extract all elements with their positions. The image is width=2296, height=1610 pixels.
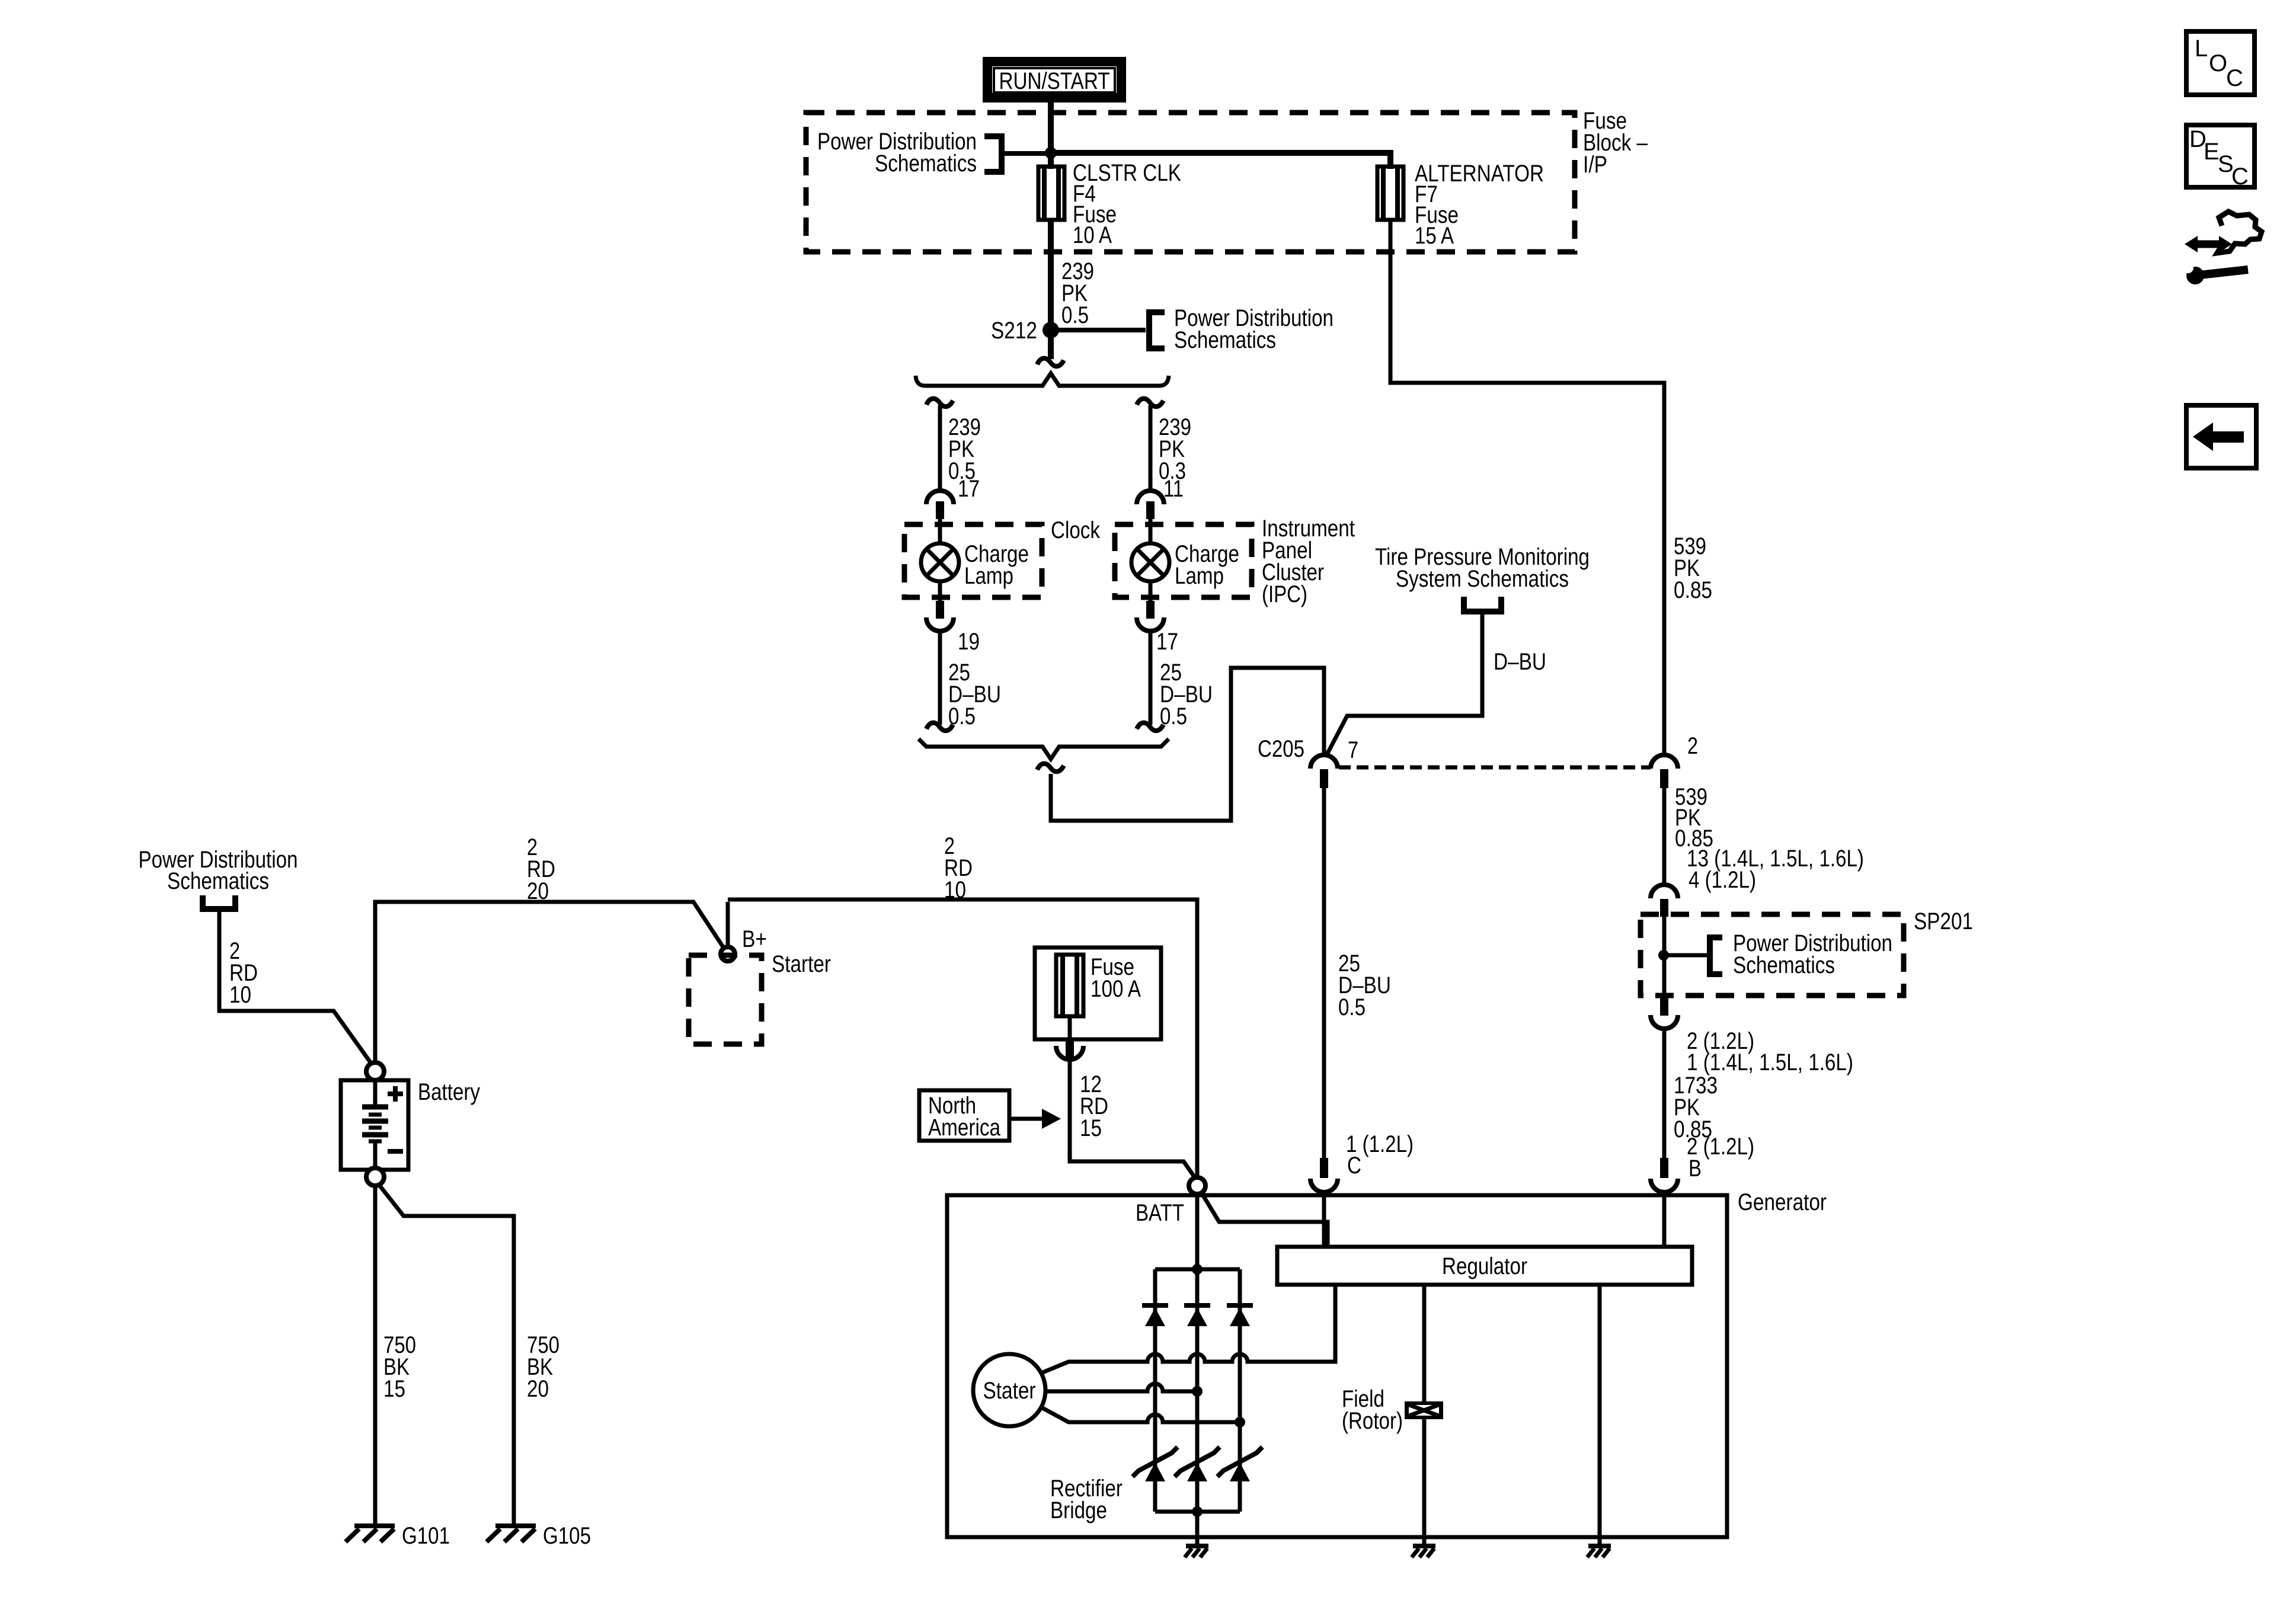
wire bracket to battery positive	[219, 912, 372, 1065]
label power distribution schematics (SP201)	[1733, 930, 1892, 978]
svg-text:1 (1.4L, 1.5L, 1.6L): 1 (1.4L, 1.5L, 1.6L)	[1687, 1049, 1853, 1076]
icon back arrow box	[2186, 405, 2256, 468]
connector C at generator	[1310, 1158, 1338, 1192]
svg-text:15: 15	[1080, 1115, 1102, 1141]
diode bottom avalanche 2	[1175, 1447, 1220, 1481]
out-of-page break right branch bottom	[1137, 723, 1163, 731]
svg-text:11: 11	[1163, 476, 1184, 502]
label pins 2 and 1 below SP201	[1687, 1028, 1853, 1076]
diode bottom avalanche 1	[1133, 1447, 1178, 1481]
wire into IPC lamp	[1149, 519, 1153, 545]
battery minus sign	[388, 1149, 403, 1154]
power feed box RUN/START	[987, 62, 1121, 98]
svg-text:17: 17	[1156, 629, 1178, 655]
wire regulator right ground leg	[1598, 1285, 1602, 1537]
label ALTERNATOR F7 Fuse 15 A	[1415, 161, 1544, 249]
svg-text:G101: G101	[402, 1523, 450, 1549]
node BATT terminal	[1189, 1177, 1205, 1194]
junction dot top bus	[1192, 1264, 1203, 1275]
label 19 and 25 D-BU 0.5 (left)	[948, 629, 1001, 729]
svg-text:(Rotor): (Rotor)	[1342, 1408, 1403, 1434]
wire left branch down to clock connector	[938, 405, 942, 491]
connector pin 19 below clock	[926, 601, 954, 631]
wire B+ feed to fuse 100A branch	[728, 900, 1197, 1178]
svg-text:C205: C205	[1258, 736, 1304, 762]
svg-text:Stater: Stater	[983, 1378, 1036, 1404]
label 750 BK 15	[383, 1332, 416, 1402]
label power distribution schematics (battery feed)	[139, 847, 298, 894]
label Instrument Panel Cluster (IPC)	[1262, 516, 1355, 607]
wire into clock lamp	[938, 519, 942, 545]
svg-text:Starter: Starter	[772, 951, 831, 977]
svg-text:15: 15	[383, 1376, 405, 1402]
label 17 and 25 D-BU 0.5 (right)	[1156, 629, 1213, 729]
junction dot phase 2	[1192, 1386, 1203, 1397]
label pins 13 and 4	[1687, 846, 1864, 893]
wire pin 17 down to break	[1149, 631, 1153, 725]
svg-text:Schematics: Schematics	[167, 868, 269, 894]
label 2 RD 10 (battery feed)	[229, 938, 258, 1008]
battery box	[341, 1080, 408, 1170]
label Field (Rotor)	[1342, 1386, 1403, 1434]
fuse block I/P dashed box	[806, 113, 1575, 252]
tire pressure monitoring label	[1375, 544, 1590, 592]
ground G105	[487, 1526, 536, 1542]
svg-text:I/P: I/P	[1583, 152, 1607, 178]
node battery negative terminal	[366, 1168, 384, 1186]
fuse F4 CLSTR CLK 10A	[1038, 167, 1064, 220]
rectifier right leg	[1238, 1269, 1242, 1512]
label 1733 PK 0.85	[1674, 1073, 1718, 1142]
connector pin 11 at IPC	[1137, 491, 1164, 519]
wire S212 down to break	[1048, 330, 1054, 359]
junction dot bottom bus	[1192, 1506, 1203, 1517]
wire SP201 to bracket	[1664, 953, 1710, 958]
connector B at generator	[1651, 1158, 1678, 1192]
north america arrow	[1009, 1109, 1061, 1129]
connector below SP201	[1651, 998, 1678, 1029]
wire battery negative to G101	[373, 1179, 378, 1523]
wire SP201 to generator B terminal	[1662, 1029, 1667, 1160]
svg-text:Battery: Battery	[418, 1079, 480, 1105]
rectifier bottom bus	[1155, 1510, 1240, 1514]
wire battery positive up and right to B+	[375, 902, 724, 1063]
out-of-page break left branch bottom	[926, 723, 953, 731]
ground G101	[346, 1526, 395, 1542]
merge brace joining branches	[919, 739, 1169, 759]
rectifier left leg	[1153, 1269, 1157, 1512]
svg-text:B: B	[1689, 1156, 1702, 1182]
wire regulator to field and ground	[1422, 1285, 1427, 1537]
svg-text:G105: G105	[543, 1523, 591, 1549]
out-of-page break symbol left branch	[926, 399, 953, 406]
svg-text:L: L	[2195, 36, 2208, 62]
wire 239 PK fuse F4 to splice S212	[1048, 220, 1054, 330]
wire B+ up to feed line	[726, 902, 730, 947]
svg-text:10: 10	[944, 877, 966, 903]
connector below fuse 100A	[1056, 1039, 1083, 1060]
starter dashed box	[689, 955, 762, 1044]
icon DESC box	[2186, 125, 2255, 190]
north america box	[919, 1090, 1009, 1141]
out-of-page break symbol right branch	[1137, 399, 1163, 406]
fuse F7 ALTERNATOR 15A	[1377, 167, 1403, 220]
field rotor coil symbol	[1405, 1401, 1443, 1419]
label CLSTR CLK F4 Fuse 10 A	[1073, 160, 1181, 248]
svg-text:0.85: 0.85	[1674, 577, 1712, 603]
svg-text:Regulator: Regulator	[1442, 1253, 1527, 1279]
label Fuse Block - I/P	[1583, 108, 1648, 178]
svg-text:BATT: BATT	[1136, 1200, 1184, 1226]
splice pack SP201 dashed box	[1641, 914, 1904, 996]
wire fuse 100A to BATT node	[1070, 1060, 1195, 1177]
label 539 PK 0.85 (below pin 2)	[1675, 784, 1713, 852]
wire pin 19 down to break	[938, 631, 942, 725]
svg-text:C: C	[2226, 65, 2243, 91]
diode top 3	[1227, 1305, 1253, 1326]
svg-text:S212: S212	[991, 318, 1037, 344]
junction dot in SP201	[1658, 950, 1669, 961]
out-of-page break symbol below S212	[1037, 359, 1064, 366]
node B+ at starter	[721, 947, 735, 961]
wire B terminal to regulator	[1662, 1192, 1667, 1247]
wire right branch down to IPC connector	[1149, 405, 1153, 491]
diode bottom avalanche 3	[1217, 1447, 1262, 1481]
svg-text:Schematics: Schematics	[875, 151, 977, 177]
wire C terminal to regulator	[1322, 1192, 1326, 1247]
connector pin 17 at clock	[926, 491, 954, 519]
wire fuse F7 down and right to pin 2	[1390, 220, 1664, 755]
wire BATT to regulator	[1199, 1189, 1328, 1247]
charge lamp (IPC)	[1131, 543, 1169, 581]
wire IPC lamp to pin 17	[1149, 581, 1153, 603]
wire fuse 100A to connector	[1068, 1016, 1072, 1042]
svg-text:100 A: 100 A	[1091, 976, 1141, 1002]
svg-text:D–BU: D–BU	[1494, 649, 1546, 675]
svg-text:0.5: 0.5	[1338, 994, 1366, 1020]
stator phase wire 3	[1041, 1407, 1240, 1422]
svg-text:C: C	[1347, 1153, 1361, 1179]
svg-text:America: America	[928, 1115, 1001, 1141]
svg-text:19: 19	[958, 629, 980, 655]
wire D-BU from tire pressure to C205 pin 7	[1327, 614, 1482, 754]
svg-text:Clock: Clock	[1051, 517, 1101, 543]
svg-text:Generator: Generator	[1738, 1189, 1827, 1215]
node battery positive terminal	[366, 1062, 384, 1080]
connector into SP201	[1651, 885, 1678, 917]
svg-text:20: 20	[527, 878, 549, 904]
label 539 PK 0.85 (alternator fuse output)	[1674, 533, 1712, 603]
svg-text:10 A: 10 A	[1073, 222, 1112, 248]
svg-text:2: 2	[1687, 733, 1698, 759]
instrument panel cluster dashed box	[1115, 524, 1252, 597]
wire S212 to bracket	[1051, 328, 1146, 332]
rectifier top bus	[1155, 1267, 1240, 1272]
label 12 RD 15	[1080, 1071, 1108, 1141]
splice S212 junction dot	[1043, 322, 1059, 338]
bracket power distribution schematics (SP201)	[1710, 937, 1722, 974]
svg-text:Lamp: Lamp	[1175, 563, 1224, 589]
label power distribution schematics (fuse block)	[817, 129, 977, 177]
svg-text:RUN/START: RUN/START	[999, 68, 1110, 94]
svg-text:15 A: 15 A	[1415, 223, 1454, 249]
svg-text:O: O	[2209, 50, 2227, 76]
wire BATT down through rectifier	[1195, 1194, 1200, 1537]
diode top 2	[1184, 1305, 1210, 1326]
svg-text:4 (1.2L): 4 (1.2L)	[1689, 867, 1756, 893]
connector C205 pin 2	[1651, 755, 1678, 788]
regulator box	[1277, 1247, 1692, 1285]
label 750 BK 20	[527, 1332, 559, 1402]
label 1 (1.2L) C	[1346, 1131, 1414, 1179]
bracket power distribution schematics (battery feed)	[203, 895, 235, 909]
bracket power distribution schematics (S212)	[1149, 312, 1165, 348]
diode top 1	[1142, 1305, 1168, 1326]
label 2 RD 20	[527, 834, 555, 904]
ground field	[1422, 1537, 1427, 1546]
svg-text:20: 20	[527, 1376, 549, 1402]
label Fuse 100 A	[1091, 954, 1141, 1002]
svg-text:17: 17	[958, 476, 980, 502]
stator phase wire 2	[1045, 1384, 1197, 1391]
wire junction to fuse F7 branch	[1051, 153, 1390, 169]
battery cell plates	[362, 1080, 388, 1170]
svg-text:E: E	[2204, 139, 2220, 165]
svg-text:Bridge: Bridge	[1050, 1497, 1107, 1523]
ground regulator	[1598, 1537, 1602, 1546]
label Rectifier Bridge	[1050, 1475, 1123, 1523]
svg-text:10: 10	[229, 982, 251, 1008]
label 239 PK 0.5 (F4 output)	[1061, 258, 1094, 328]
label 239 PK 0.5 pin 17 (left branch)	[948, 414, 981, 502]
svg-text:Lamp: Lamp	[964, 563, 1013, 589]
label 239 PK 0.3 pin 11 (right branch)	[1159, 414, 1191, 502]
connector C205 dashed line	[1339, 766, 1651, 770]
junction dot phase 3	[1235, 1417, 1245, 1427]
branch brace splitting to clock and IPC	[916, 373, 1169, 386]
fuse 100A box	[1035, 948, 1161, 1039]
label Charge Lamp (clock)	[964, 541, 1029, 589]
bracket power distribution schematics (fuse block)	[984, 136, 1051, 172]
svg-text:0.5: 0.5	[1061, 302, 1089, 328]
fuse 100A element	[1056, 955, 1083, 1016]
bracket tire pressure monitoring	[1464, 597, 1501, 612]
wire battery negative to G105	[377, 1182, 514, 1523]
svg-text:Schematics: Schematics	[1733, 952, 1835, 978]
clock dashed box	[904, 524, 1042, 597]
label 2 (1.2L) B	[1687, 1134, 1754, 1182]
wire through SP201	[1662, 917, 1667, 998]
wire C205 pin 7 down to generator C terminal	[1322, 788, 1326, 1161]
label 2 RD 10 (starter to generator)	[944, 833, 973, 903]
ground rectifier	[1195, 1537, 1200, 1546]
svg-text:System Schematics: System Schematics	[1396, 566, 1569, 592]
label 25 D-BU 0.5 (C205 to generator)	[1338, 950, 1391, 1020]
stator winding circle	[973, 1354, 1045, 1426]
svg-text:B+: B+	[742, 926, 767, 952]
wire pin 2 down to SP201	[1662, 788, 1667, 886]
icon arrows and wrench	[2183, 212, 2262, 284]
charge lamp (clock)	[921, 543, 959, 581]
wire clock lamp to pin 19	[938, 581, 942, 603]
label Charge Lamp (IPC)	[1175, 541, 1239, 589]
svg-text:C: C	[2231, 164, 2249, 190]
connector pin 17 below IPC	[1137, 601, 1164, 631]
icon LOC box	[2186, 31, 2255, 95]
wire merge to connector C205 pin 7	[1051, 668, 1324, 821]
svg-text:7: 7	[1348, 737, 1358, 763]
generator box	[947, 1195, 1727, 1537]
label North America	[928, 1093, 1001, 1141]
label power distribution schematics (S212)	[1174, 305, 1334, 353]
junction dot at S211 feed	[1045, 147, 1057, 159]
battery plus sign	[388, 1086, 403, 1102]
wire RUN/START down to fuse F4	[1048, 103, 1054, 169]
svg-text:(IPC): (IPC)	[1262, 581, 1307, 607]
out-of-page break below merge brace	[1037, 764, 1064, 772]
svg-text:SP201: SP201	[1914, 908, 1973, 934]
stator phase wire 1 to regulator	[1041, 1285, 1335, 1373]
connector C205 pin 7	[1310, 755, 1338, 788]
svg-text:Schematics: Schematics	[1174, 327, 1276, 353]
